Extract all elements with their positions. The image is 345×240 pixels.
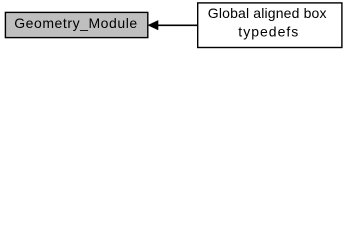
edge wire [157,24,198,26]
arrowhead [148,21,158,30]
node Geometry_Module [5,12,147,37]
node Global aligned box typedefs [198,3,342,48]
svg-text:Global aligned box: Global aligned box [208,5,327,21]
svg-text:Geometry_Module: Geometry_Module [14,15,137,31]
svg-text:typedefs: typedefs [238,24,298,40]
